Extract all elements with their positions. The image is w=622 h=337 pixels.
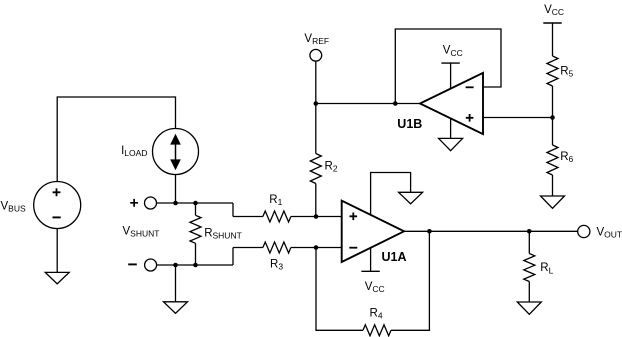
svg-text:R1: R1 xyxy=(269,194,282,207)
svg-text:ILOAD: ILOAD xyxy=(121,145,147,158)
svg-text:R3: R3 xyxy=(270,258,283,271)
svg-text:U1A: U1A xyxy=(382,250,407,264)
svg-text:VSHUNT: VSHUNT xyxy=(123,226,160,239)
svg-text:VOUT: VOUT xyxy=(597,226,622,239)
svg-text:RSHUNT: RSHUNT xyxy=(204,227,242,240)
svg-text:R2: R2 xyxy=(325,161,338,174)
svg-text:R4: R4 xyxy=(370,308,383,321)
svg-text:VCC: VCC xyxy=(365,281,385,294)
svg-text:R6: R6 xyxy=(560,151,573,164)
svg-text:VBUS: VBUS xyxy=(1,200,26,213)
svg-text:RL: RL xyxy=(540,262,553,275)
svg-text:VCC: VCC xyxy=(544,4,564,17)
svg-text:U1B: U1B xyxy=(397,117,422,131)
svg-text:VREF: VREF xyxy=(304,33,329,46)
svg-text:R5: R5 xyxy=(560,66,573,79)
svg-text:VCC: VCC xyxy=(443,45,463,58)
